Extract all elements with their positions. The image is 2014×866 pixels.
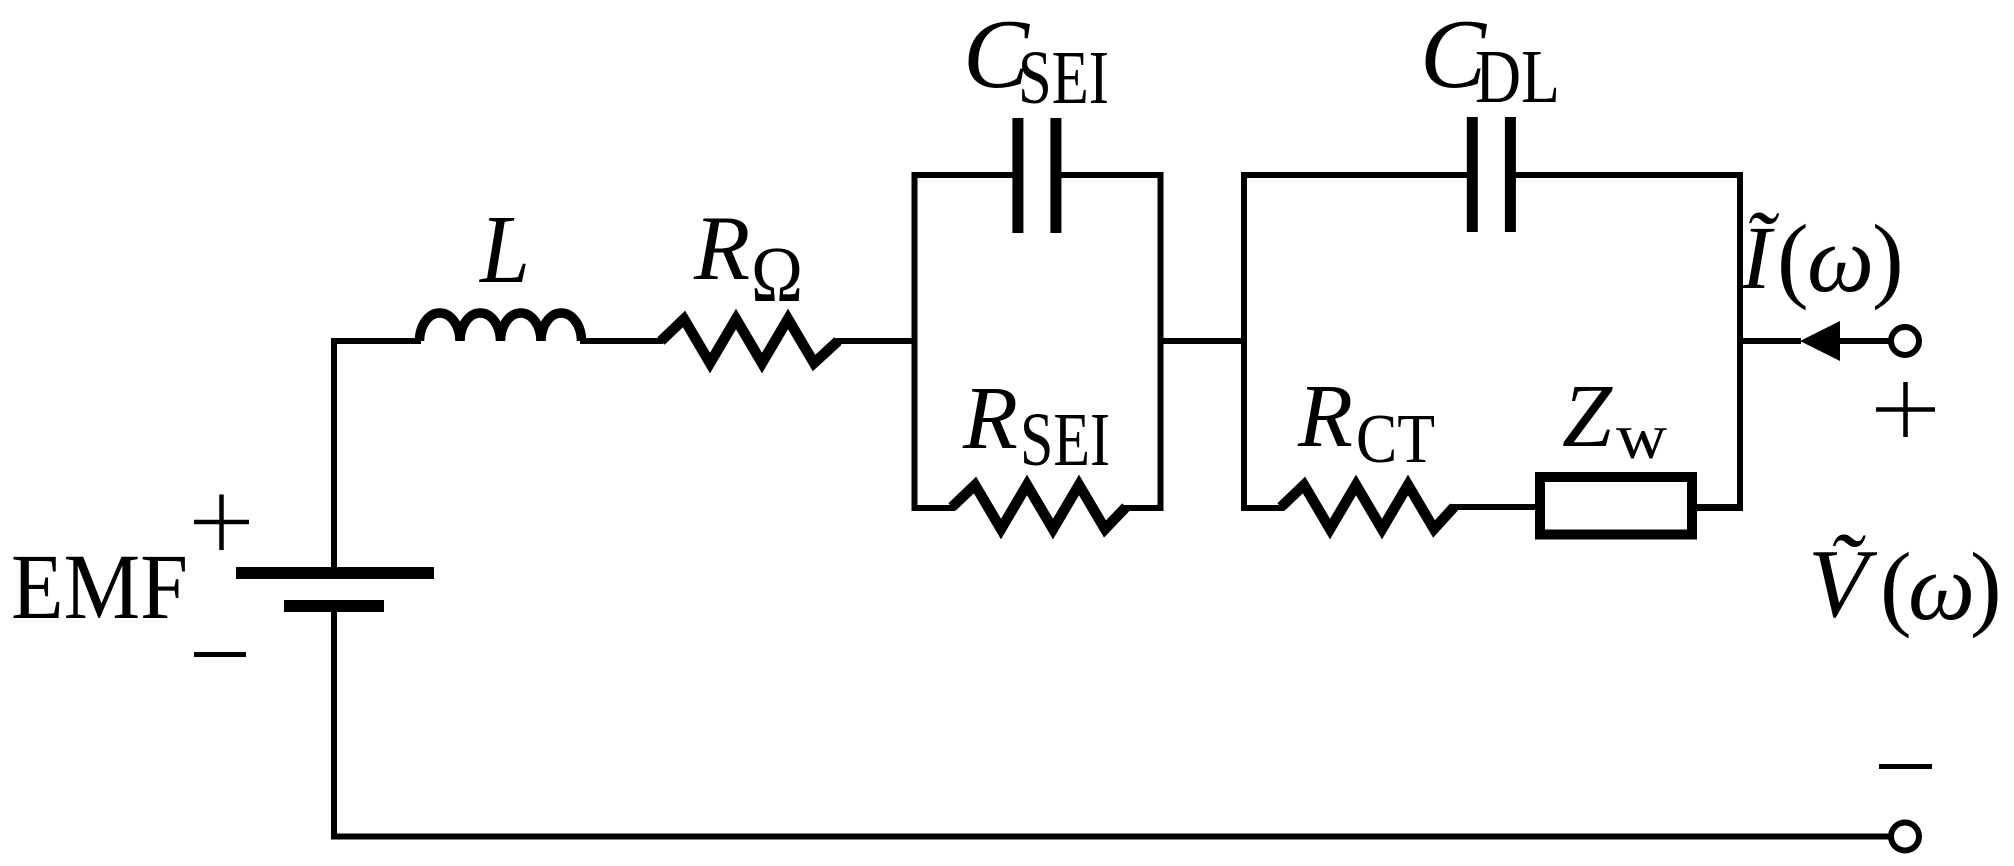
- svg-text:L: L: [478, 196, 530, 304]
- node DL block right frame: [1513, 175, 1740, 508]
- wire Z_W to DL right frame: [1690, 504, 1742, 510]
- svg-text:ω: ω: [1807, 206, 1874, 312]
- resistor R_SEI: [952, 485, 1126, 529]
- wire resistor to SEI block: [836, 338, 917, 344]
- inductor L: [420, 313, 582, 341]
- wire R_CT to Z_W: [1450, 504, 1542, 510]
- label I(omega): [1740, 205, 1904, 312]
- svg-text:DL: DL: [1475, 35, 1560, 119]
- plus sign battery: [194, 495, 249, 551]
- wire SEI block to DL block: [1161, 338, 1245, 344]
- capacitor C_DL: [1467, 117, 1516, 232]
- wire DL block to arrow: [1740, 338, 1801, 344]
- node SEI block left frame: [915, 175, 1016, 508]
- wire inductor to resistor: [580, 338, 663, 344]
- wire battery to bottom rail: [331, 612, 337, 840]
- svg-text:): ): [1872, 205, 1904, 311]
- label R_SEI: [962, 369, 1110, 482]
- label EMF: [11, 536, 188, 639]
- svg-text:Ω: Ω: [751, 232, 803, 319]
- node SEI block right frame: [1058, 175, 1161, 508]
- capacitor C_SEI: [1012, 118, 1061, 233]
- svg-text:(: (: [1880, 533, 1912, 639]
- label R_Omega: [693, 197, 803, 319]
- svg-text:): ): [1970, 533, 2002, 639]
- svg-text:SEI: SEI: [1018, 36, 1109, 120]
- svg-text:Ṽ: Ṽ: [1808, 530, 1878, 638]
- minus sign output: [1879, 764, 1932, 769]
- svg-text:EMF: EMF: [11, 536, 188, 639]
- svg-text:R: R: [962, 369, 1018, 468]
- Warburg impedance Z_W box: [1540, 477, 1692, 535]
- battery EMF negative plate: [284, 600, 384, 612]
- label R_CT: [1297, 367, 1435, 478]
- wire left vertical and top-left corner to inductor: [334, 341, 421, 570]
- svg-text:(: (: [1777, 205, 1809, 311]
- current arrow: [1800, 321, 1840, 361]
- label C_SEI: [963, 0, 1109, 120]
- minus sign battery: [194, 652, 246, 657]
- wire arrow to top terminal: [1840, 338, 1892, 344]
- terminal top right: [1891, 327, 1919, 355]
- label L: [478, 196, 530, 304]
- svg-text:Z: Z: [1562, 367, 1613, 466]
- svg-text:ω: ω: [1908, 534, 1975, 640]
- label C_DL: [1420, 0, 1560, 119]
- svg-text:CT: CT: [1356, 401, 1435, 478]
- wire bottom rail: [331, 834, 1892, 840]
- label Z_W: [1562, 367, 1667, 473]
- resistor R_Omega: [661, 319, 838, 363]
- battery EMF positive plate: [236, 567, 434, 579]
- svg-text:R: R: [1297, 367, 1353, 466]
- label V(omega): [1808, 530, 2002, 640]
- terminal bottom right: [1891, 823, 1919, 851]
- svg-text:w: w: [1616, 401, 1667, 473]
- svg-text:SEI: SEI: [1020, 398, 1110, 482]
- svg-text:R: R: [693, 197, 750, 299]
- plus sign output: [1876, 382, 1935, 437]
- node DL block left frame: [1244, 175, 1469, 508]
- resistor R_CT: [1281, 485, 1454, 529]
